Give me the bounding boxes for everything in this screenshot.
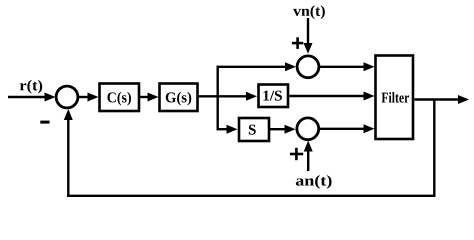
label C(s): [107, 92, 131, 106]
summing junction S2: [297, 56, 319, 78]
wire S to lower summing junction S3: [270, 125, 296, 134]
wire Filter output: [415, 95, 470, 104]
minus sign at S1: [40, 121, 49, 124]
wire 1/S to Filter: [290, 92, 375, 101]
label G(s): [166, 92, 192, 106]
block C1 C(s): [100, 84, 140, 112]
wire vn(t) into S2: [304, 18, 313, 54]
label S: [249, 125, 256, 135]
label r(t): [20, 80, 42, 94]
label vn(t): [293, 5, 325, 19]
label 1/S: [263, 91, 281, 101]
block Filter: [376, 56, 414, 140]
label an(t): [296, 175, 332, 189]
wire feedback up into S1: [64, 109, 73, 197]
wire S2 to Filter: [319, 62, 375, 71]
block 1/S: [259, 85, 289, 108]
wire S1 to C(s): [78, 93, 99, 102]
block G1 G(s): [160, 84, 198, 112]
plus sign at S3: [290, 148, 303, 160]
wire input r(t) to summing junction S1: [8, 93, 56, 102]
plus sign at S2: [292, 37, 303, 49]
block S: [239, 118, 269, 141]
wire feedback vertical from output node: [433, 100, 435, 196]
wire feedback bottom run: [67, 195, 435, 197]
wire C(s) to G(s): [140, 93, 159, 102]
wire branch vertical at node B: [216, 66, 218, 130]
label Filter: [382, 92, 410, 103]
wire branch to S block: [217, 125, 238, 134]
wire an(t) into S3: [304, 141, 313, 172]
wire G(s) to 1/S block: [198, 92, 258, 101]
wire branch to upper summing junction S2: [217, 62, 297, 71]
wire S3 to Filter: [319, 124, 375, 133]
summing junction S1: [56, 86, 78, 108]
summing junction S3: [297, 118, 319, 140]
